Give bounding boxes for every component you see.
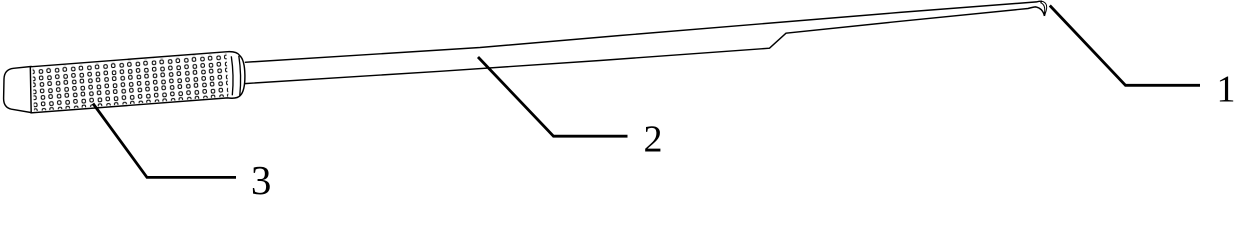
leader line 3 [93,104,236,178]
shaft bottom line with step [245,7,1045,84]
hook claw at tip [1041,1,1047,15]
handle end cap [4,67,32,113]
ferrule groove line 1 [231,56,233,95]
handle body outline [30,52,245,113]
ferrule groove line 2 [239,56,241,96]
leader line 2 [478,57,628,136]
svg-text:3: 3 [251,157,272,202]
svg-text:2: 2 [644,118,663,160]
leader line 1 [1050,6,1200,86]
shaft top line [245,1,1042,62]
svg-text:1: 1 [1217,68,1236,110]
knurl texture on handle [28,45,238,120]
